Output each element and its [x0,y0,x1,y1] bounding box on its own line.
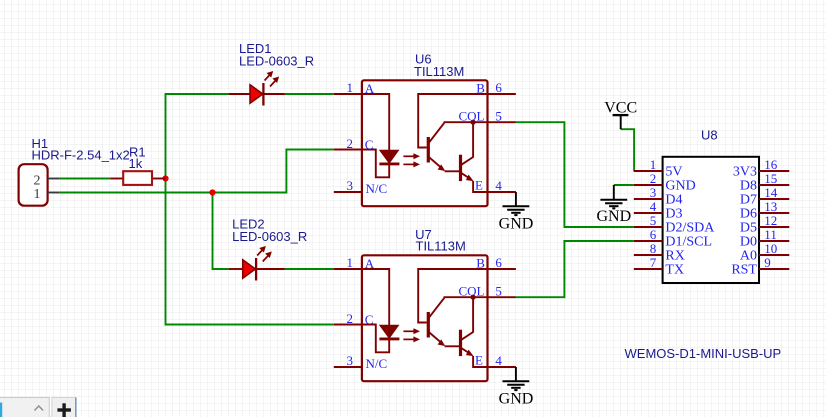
svg-text:1: 1 [650,157,657,172]
svg-text:D0: D0 [740,235,757,250]
svg-text:1k: 1k [129,156,143,171]
label U7 [415,227,466,253]
svg-text:7: 7 [650,255,657,270]
svg-text:A0: A0 [740,249,757,264]
U6 internal LED cathode lead [362,150,389,178]
LED LED1 [229,71,285,106]
wire VCC to U8 5V [621,129,634,171]
optocoupler U7 TIL113M [334,255,516,381]
U7 pin 1 A [334,268,362,270]
svg-text:12: 12 [764,213,777,228]
LED1 emission arrows [265,74,272,81]
svg-text:13: 13 [764,199,777,214]
sheet tab UI [0,398,76,417]
svg-text:1: 1 [347,255,354,270]
U7 internal LED anode lead [362,269,389,325]
LED1 triangle [250,85,263,104]
U8 right pin numbers [764,157,778,270]
resistor R1 [110,171,165,185]
svg-text:4: 4 [495,353,502,368]
junction node LED2 branch [209,189,215,195]
junction node R1 output [162,175,168,181]
svg-text:RX: RX [665,249,684,264]
svg-text:5: 5 [495,283,502,298]
svg-text:3: 3 [347,178,354,193]
svg-text:1: 1 [347,80,354,95]
U6 pin names [365,81,485,196]
svg-text:D5: D5 [740,221,757,236]
U7 body [362,255,488,381]
U7 COL junction [471,295,476,300]
svg-text:5: 5 [650,213,657,228]
wire R1 node to LED1 and down to U7 pin C [166,94,334,325]
U7 pin numbers [347,255,503,368]
wire H1 pin1 to U6 pin C [59,150,333,193]
svg-text:A: A [365,256,375,271]
svg-text:6: 6 [495,80,502,95]
U8 right pin names [731,165,757,278]
svg-text:11: 11 [764,227,777,242]
svg-text:GND: GND [596,208,631,225]
R1 body [123,171,152,185]
U6 pin numbers [347,80,503,193]
wire ground symbol to U8 GND [614,184,634,186]
svg-text:6: 6 [650,227,657,242]
svg-text:N/C: N/C [366,356,388,371]
svg-text:GND: GND [665,179,695,194]
U7 pin 4 E [488,366,516,368]
svg-text:3: 3 [650,185,657,200]
svg-text:U8: U8 [701,128,718,143]
svg-text:B: B [476,256,485,271]
U7 pin 2 C [334,324,362,326]
U7 pin 6 B [488,268,516,270]
svg-text:1: 1 [34,187,41,202]
U6 pin 4 E [488,191,516,193]
wire branch junction to LED2 anode [213,193,229,270]
svg-text:10: 10 [764,241,777,256]
wire LED2 cathode to U7 pin A [285,268,334,270]
svg-text:2: 2 [34,173,41,188]
svg-text:C: C [365,312,374,327]
U6 body [362,80,488,206]
svg-text:6: 6 [495,255,502,270]
svg-text:D4: D4 [665,193,682,208]
U7 base lead from pin B [418,269,487,323]
svg-text:LED-0603_R: LED-0603_R [239,54,314,69]
svg-text:GND: GND [499,391,534,408]
svg-text:LED-0603_R: LED-0603_R [232,229,307,244]
svg-text:D1/SCL: D1/SCL [665,235,712,250]
module U8 WEMOS-D1-MINI [634,157,790,283]
U7 light coupling arrows [403,330,415,332]
ground at U7 pin E [499,367,534,408]
label R1 value 1k [129,145,146,172]
label WEMOS-D1-MINI-USB-UP [625,346,782,361]
svg-text:E: E [475,353,483,368]
U6 transistor Q2 [459,155,462,181]
svg-text:2: 2 [347,311,354,326]
LED LED2 [229,246,285,281]
connector H1 [19,164,60,206]
label LED2 [232,216,307,244]
svg-text:D8: D8 [740,179,757,194]
wire U6 COL to U8 D2/SDA [516,122,634,227]
ground at U8 GND pin [596,185,631,225]
svg-text:15: 15 [764,171,777,186]
LED1 leads [229,93,250,95]
optocoupler U6 TIL113M [334,80,516,206]
wire LED1 cathode to U6 pin A [285,93,334,95]
U7 transistor Q1 [427,312,430,338]
wire U7 COL to U8 D1/SCL [516,241,634,297]
U7 pin 5 COL [488,296,516,298]
R1 leads [110,178,123,180]
U8 right pins 9-16 [759,171,789,269]
svg-text:9: 9 [764,255,771,270]
svg-text:C: C [365,137,374,152]
U6 base lead from pin B [418,94,487,148]
LED2 triangle [243,260,256,279]
svg-text:GND: GND [499,216,534,233]
U7 internal LED [380,325,399,338]
U6 pin 5 COL [488,121,516,123]
svg-text:2: 2 [650,171,657,186]
U8 left pins 1-7 [634,171,663,269]
H1 pin 2 [48,178,60,180]
U6 transistor Q1 [427,137,430,163]
U6 pin 1 A [334,93,362,95]
svg-text:D7: D7 [740,193,757,208]
svg-text:4: 4 [495,178,502,193]
U8 body [663,157,759,283]
svg-text:COL: COL [459,108,485,123]
svg-text:TX: TX [665,263,684,278]
U6 light coupling arrows [403,155,415,157]
U6 pin 6 B [488,93,516,95]
svg-text:5: 5 [495,108,502,123]
H1 body [19,164,48,206]
LED2 cathode bar [255,258,257,281]
H1 pin 1 [48,192,60,194]
LED2 emission arrows [257,249,264,256]
svg-text:RST: RST [731,263,757,278]
U6 internal LED anode lead [362,94,389,150]
U7 transistor Q2 [459,330,462,356]
U7 pin 3 N/C [334,366,362,368]
svg-text:3: 3 [347,353,354,368]
svg-text:5V: 5V [665,165,682,180]
svg-text:D6: D6 [740,207,757,222]
label U6 [414,52,464,79]
U7 pin names [365,256,485,371]
LED2 leads [229,268,243,270]
U6 internal LED [380,150,399,163]
U6 COL junction [471,120,476,125]
svg-text:TIL113M: TIL113M [416,238,466,253]
wire H1 pin2 to R1 [59,178,110,180]
label U8 [701,128,718,143]
power VCC [604,100,637,130]
U6 pin 3 N/C [334,191,362,193]
svg-text:8: 8 [650,241,657,256]
svg-text:VCC: VCC [604,100,637,117]
U6 pin 2 C [334,149,362,151]
svg-text:B: B [476,81,485,96]
svg-text:COL: COL [459,283,485,298]
svg-text:3V3: 3V3 [733,165,757,180]
U8 left pin numbers [650,157,657,270]
label LED1 [239,41,314,69]
U8 left pin names [665,165,715,278]
svg-text:2: 2 [347,136,354,151]
svg-text:14: 14 [764,185,778,200]
label H1 refdes and footprint [32,136,130,163]
ground at U6 pin E [499,192,534,233]
svg-text:D3: D3 [665,207,682,222]
svg-text:16: 16 [764,157,778,172]
svg-text:HDR-F-2.54_1x2: HDR-F-2.54_1x2 [32,147,130,162]
svg-text:WEMOS-D1-MINI-USB-UP: WEMOS-D1-MINI-USB-UP [625,346,782,361]
svg-text:TIL113M: TIL113M [414,64,464,79]
LED1 cathode bar [262,83,264,106]
svg-text:E: E [475,178,483,193]
svg-text:A: A [365,81,375,96]
U7 internal LED cathode lead [362,325,389,353]
svg-text:4: 4 [650,199,657,214]
svg-text:N/C: N/C [366,181,388,196]
svg-text:D2/SDA: D2/SDA [665,221,715,236]
